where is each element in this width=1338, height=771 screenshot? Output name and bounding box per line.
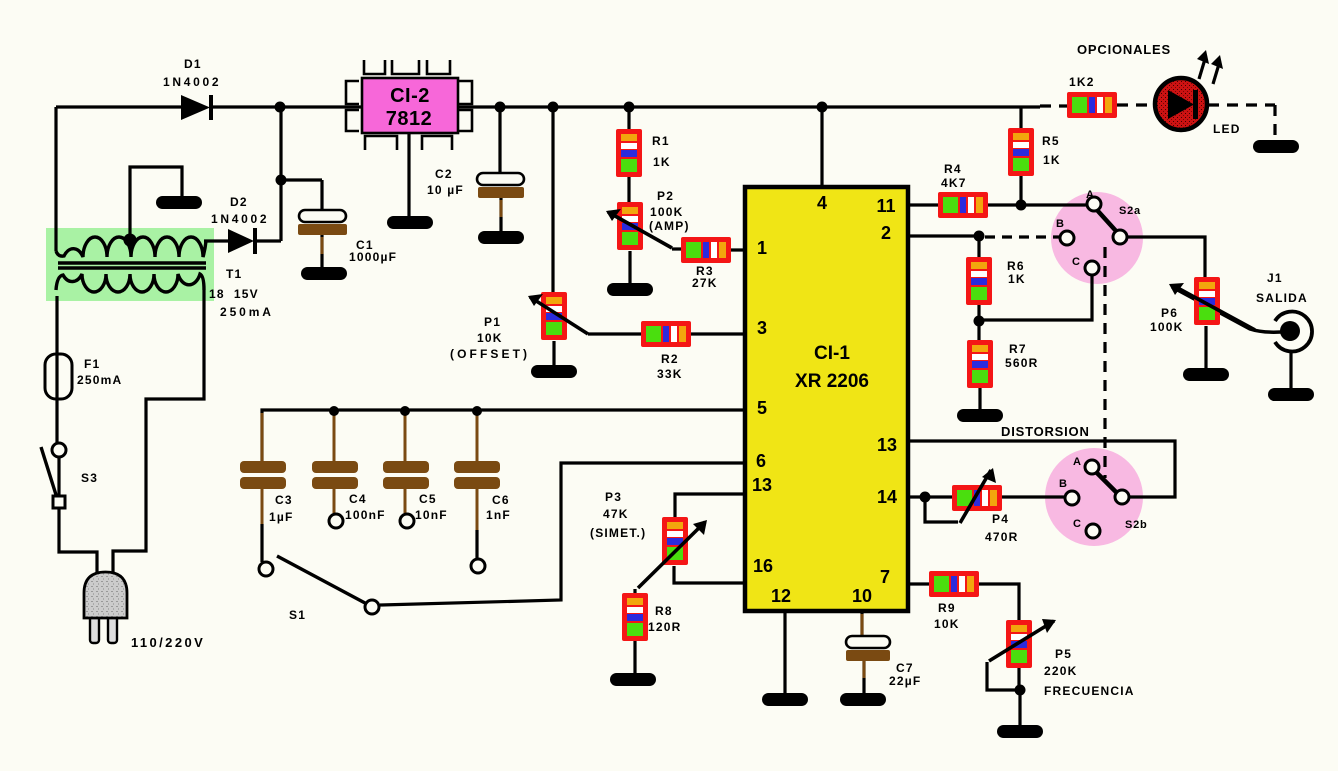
svg-text:1000µF: 1000µF bbox=[349, 250, 397, 264]
svg-text:F1: F1 bbox=[84, 357, 100, 371]
svg-text:10 µF: 10 µF bbox=[427, 183, 464, 197]
svg-text:1: 1 bbox=[757, 238, 767, 258]
svg-text:(SIMET.): (SIMET.) bbox=[590, 526, 646, 540]
svg-text:120R: 120R bbox=[648, 620, 682, 634]
svg-text:R8: R8 bbox=[655, 604, 673, 618]
svg-text:33K: 33K bbox=[657, 367, 683, 381]
svg-text:250mA: 250mA bbox=[220, 305, 274, 319]
svg-text:1nF: 1nF bbox=[486, 508, 511, 522]
svg-text:T1: T1 bbox=[226, 267, 242, 281]
svg-text:27K: 27K bbox=[692, 276, 718, 290]
svg-text:22µF: 22µF bbox=[889, 674, 921, 688]
svg-text:560R: 560R bbox=[1005, 356, 1039, 370]
svg-text:R5: R5 bbox=[1042, 134, 1060, 148]
svg-text:D2: D2 bbox=[230, 195, 248, 209]
svg-text:3: 3 bbox=[757, 318, 767, 338]
svg-text:C3: C3 bbox=[275, 493, 293, 507]
svg-text:C4: C4 bbox=[349, 492, 367, 506]
svg-text:14: 14 bbox=[877, 487, 897, 507]
svg-text:1µF: 1µF bbox=[269, 510, 294, 524]
svg-text:220K: 220K bbox=[1044, 664, 1078, 678]
svg-text:C5: C5 bbox=[419, 492, 437, 506]
svg-text:P1: P1 bbox=[484, 315, 501, 329]
svg-text:10K: 10K bbox=[477, 331, 503, 345]
svg-text:100K: 100K bbox=[1150, 320, 1184, 334]
svg-text:C: C bbox=[1073, 518, 1082, 530]
svg-text:C6: C6 bbox=[492, 493, 510, 507]
svg-text:4: 4 bbox=[817, 193, 827, 213]
svg-text:47K: 47K bbox=[603, 507, 629, 521]
svg-text:DISTORSION: DISTORSION bbox=[1001, 424, 1090, 439]
svg-text:16: 16 bbox=[753, 556, 773, 576]
svg-text:FRECUENCIA: FRECUENCIA bbox=[1044, 684, 1135, 698]
svg-text:XR 2206: XR 2206 bbox=[795, 371, 869, 392]
svg-text:11: 11 bbox=[876, 196, 895, 216]
svg-text:10nF: 10nF bbox=[415, 508, 448, 522]
svg-text:R1: R1 bbox=[652, 134, 670, 148]
svg-text:10: 10 bbox=[852, 586, 872, 606]
svg-text:R7: R7 bbox=[1009, 342, 1027, 356]
svg-text:A: A bbox=[1073, 456, 1082, 468]
svg-text:OPCIONALES: OPCIONALES bbox=[1077, 42, 1171, 57]
svg-text:R9: R9 bbox=[938, 601, 956, 615]
svg-text:100K: 100K bbox=[650, 205, 684, 219]
svg-text:7812: 7812 bbox=[386, 108, 433, 130]
svg-text:5: 5 bbox=[757, 398, 767, 418]
svg-text:S2a: S2a bbox=[1119, 205, 1141, 217]
svg-text:13: 13 bbox=[752, 475, 772, 495]
svg-text:6: 6 bbox=[756, 451, 766, 471]
svg-text:CI-2: CI-2 bbox=[390, 85, 430, 107]
svg-text:250mA: 250mA bbox=[77, 373, 122, 387]
svg-text:(OFFSET): (OFFSET) bbox=[450, 347, 530, 361]
svg-text:1N4002: 1N4002 bbox=[211, 212, 269, 226]
svg-text:P4: P4 bbox=[992, 512, 1009, 526]
svg-text:J1: J1 bbox=[1267, 271, 1283, 285]
svg-text:18 15V: 18 15V bbox=[209, 287, 259, 301]
svg-text:100nF: 100nF bbox=[345, 508, 386, 522]
svg-text:R4: R4 bbox=[944, 162, 962, 176]
svg-text:SALIDA: SALIDA bbox=[1256, 291, 1308, 305]
svg-text:1K: 1K bbox=[1008, 272, 1026, 286]
svg-text:1N4002: 1N4002 bbox=[163, 75, 221, 89]
svg-text:C7: C7 bbox=[896, 661, 914, 675]
svg-text:B: B bbox=[1059, 478, 1068, 490]
svg-text:CI-1: CI-1 bbox=[814, 343, 850, 364]
svg-text:C2: C2 bbox=[435, 167, 453, 181]
svg-text:P2: P2 bbox=[657, 189, 674, 203]
svg-text:R2: R2 bbox=[661, 352, 679, 366]
svg-text:C: C bbox=[1072, 256, 1081, 268]
svg-text:12: 12 bbox=[771, 586, 791, 606]
svg-text:7: 7 bbox=[880, 567, 890, 587]
svg-text:1K: 1K bbox=[1043, 153, 1061, 167]
svg-text:2: 2 bbox=[881, 223, 891, 243]
svg-text:1K2: 1K2 bbox=[1069, 75, 1095, 89]
svg-text:13: 13 bbox=[877, 435, 897, 455]
svg-text:B: B bbox=[1056, 218, 1065, 230]
svg-text:470R: 470R bbox=[985, 530, 1019, 544]
svg-text:D1: D1 bbox=[184, 57, 202, 71]
svg-text:4K7: 4K7 bbox=[941, 176, 967, 190]
svg-text:P6: P6 bbox=[1161, 306, 1178, 320]
svg-text:10K: 10K bbox=[934, 617, 960, 631]
svg-text:A: A bbox=[1086, 189, 1095, 201]
svg-text:P3: P3 bbox=[605, 490, 622, 504]
svg-text:S2b: S2b bbox=[1125, 519, 1148, 531]
svg-text:P5: P5 bbox=[1055, 647, 1072, 661]
svg-text:LED: LED bbox=[1213, 122, 1241, 136]
svg-text:110/220V: 110/220V bbox=[131, 635, 205, 650]
svg-text:1K: 1K bbox=[653, 155, 671, 169]
svg-text:S1: S1 bbox=[289, 608, 306, 622]
svg-text:S3: S3 bbox=[81, 471, 98, 485]
svg-text:(AMP): (AMP) bbox=[649, 219, 690, 233]
svg-text:R6: R6 bbox=[1007, 259, 1025, 273]
